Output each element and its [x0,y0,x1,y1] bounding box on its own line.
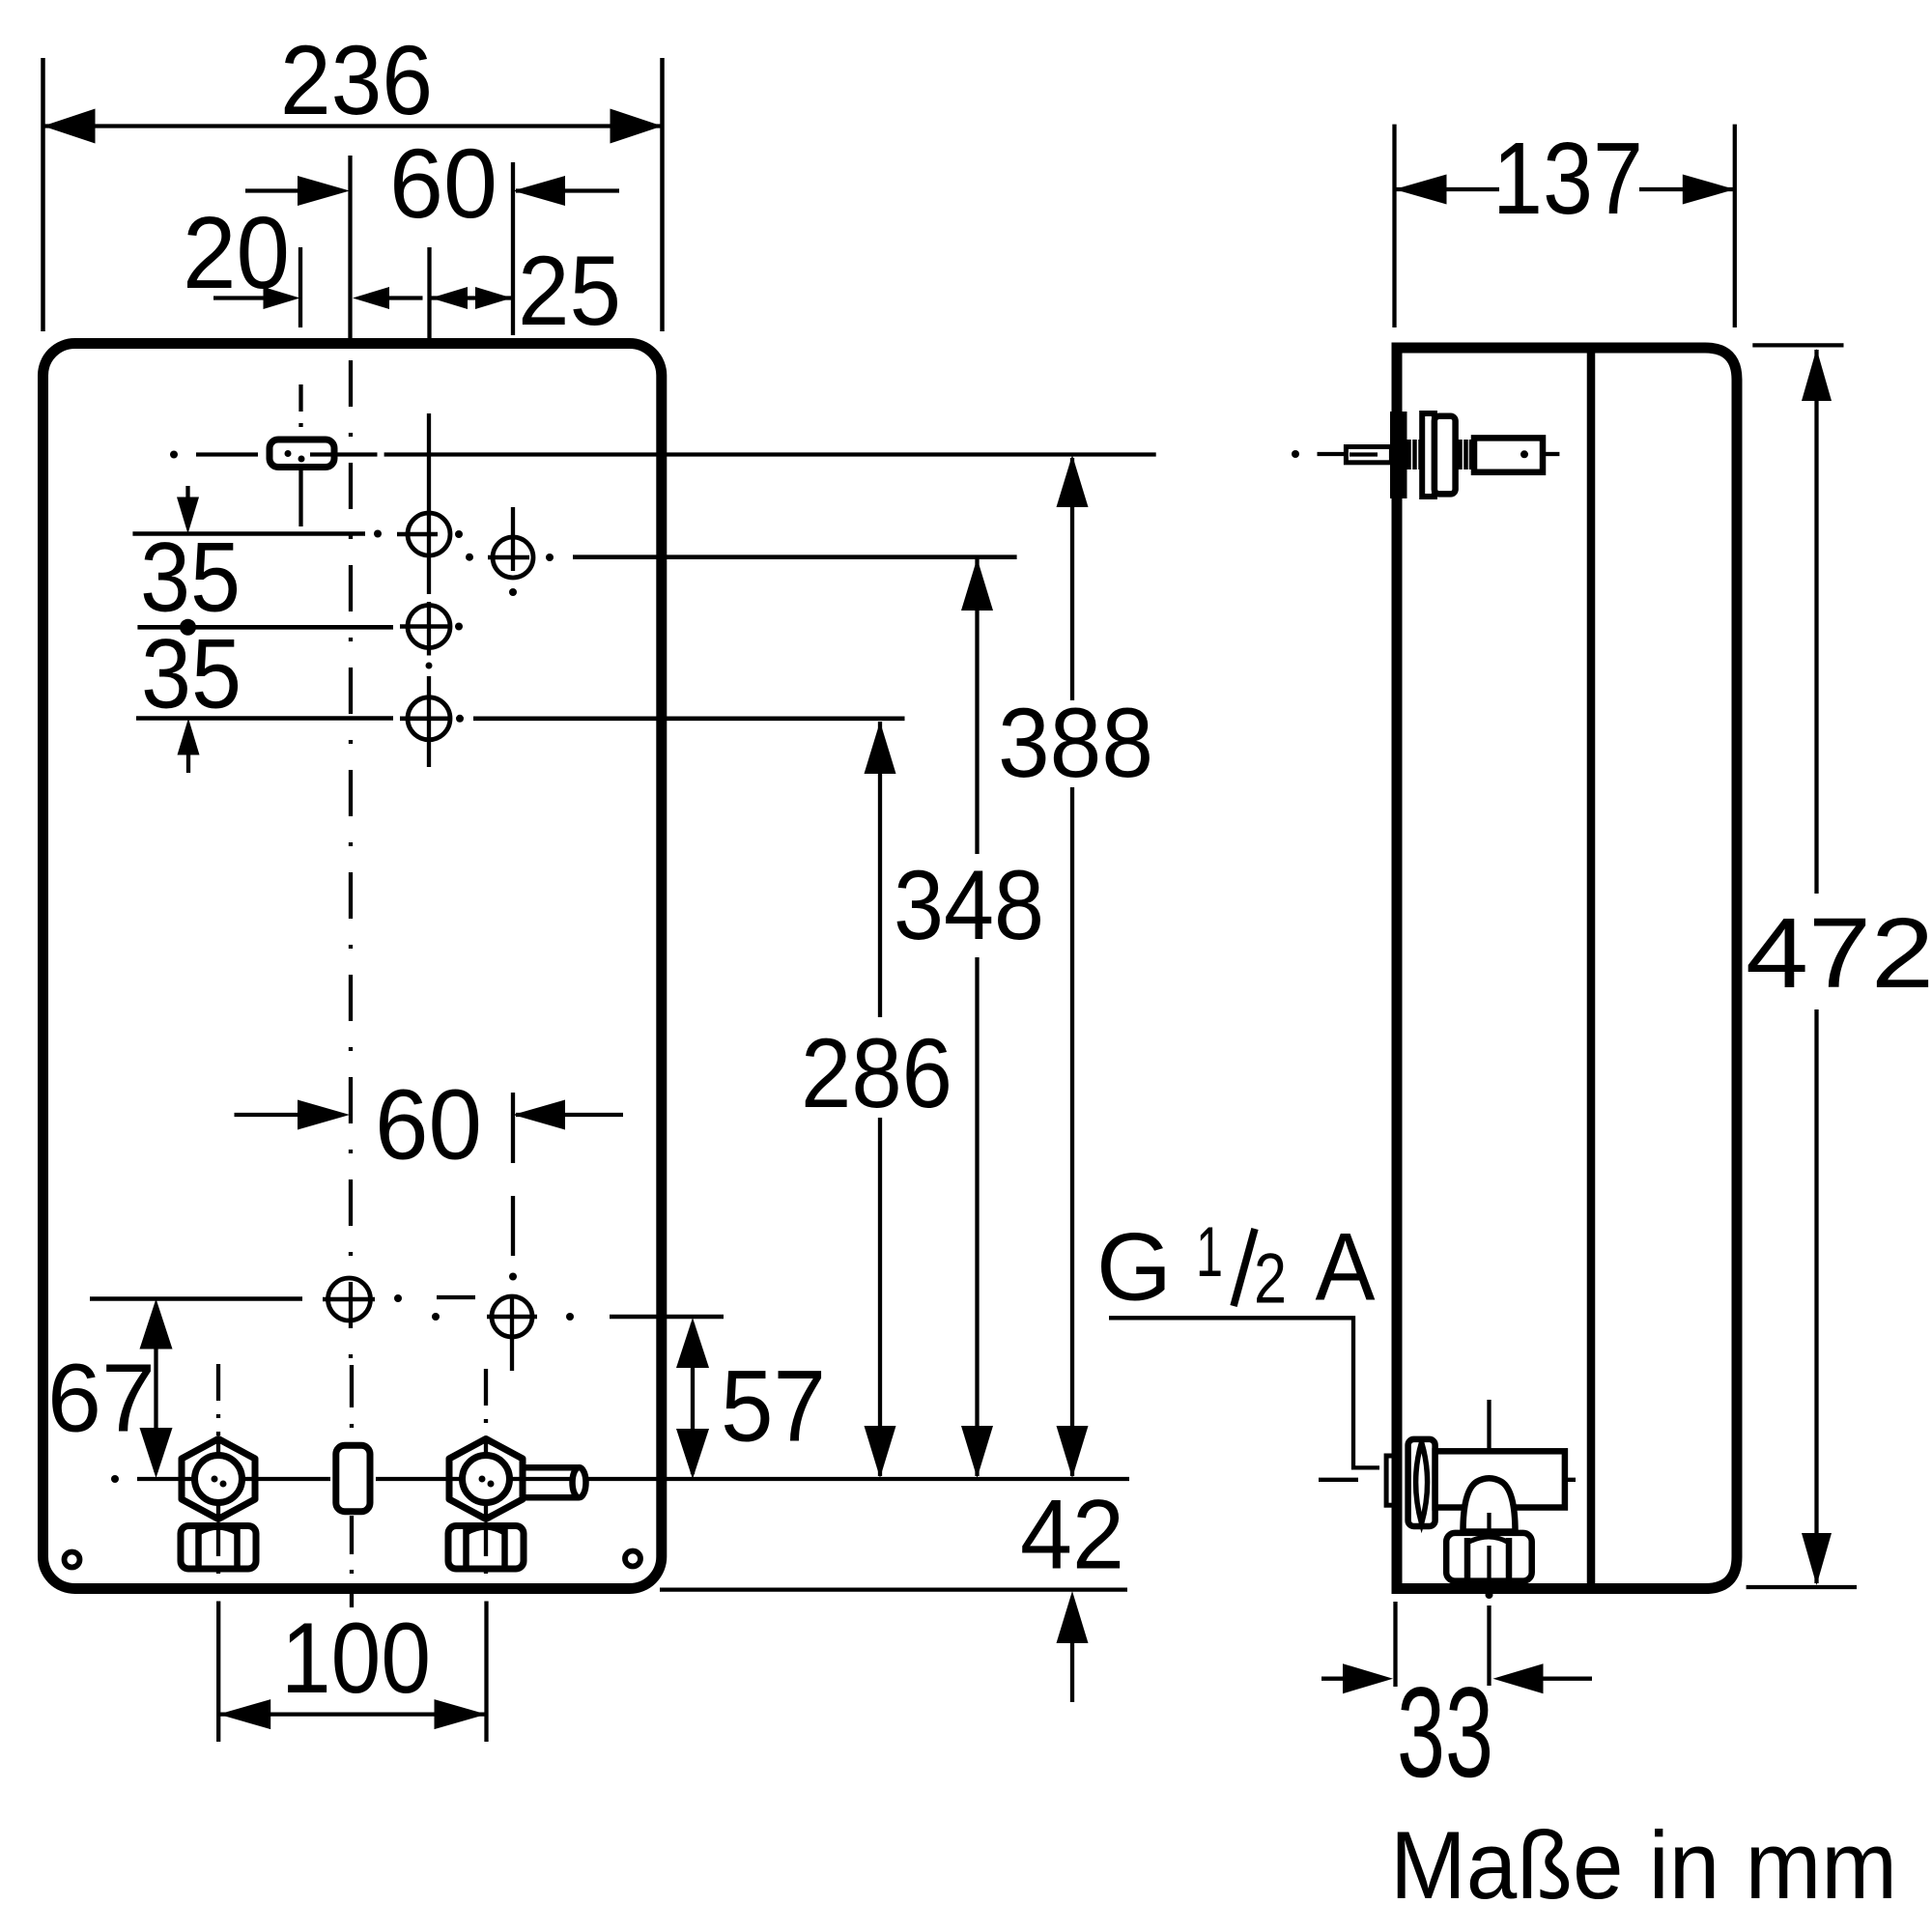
centerline through right nut [484,1523,488,1594]
dim 137 right arrow [1639,187,1735,191]
dim 472 dimension line [1814,350,1818,894]
front view body outline [43,344,662,1589]
dim 100 right extension line [484,1602,488,1743]
svg-text:236: 236 [280,25,433,135]
svg-text:60: 60 [389,128,497,239]
dim 388 bottom arrowhead [1057,1426,1089,1478]
left hex nut below [181,1526,256,1570]
dim 67 double arrow [154,1306,157,1472]
dim 33 left arrow [1321,1677,1345,1681]
svg-text:388: 388 [998,688,1153,798]
dim 472 bottom extension line [1747,1585,1857,1589]
dim 472 bottom arrowhead [1802,1533,1832,1585]
bottom fitting nut below [1446,1533,1532,1581]
svg-text:35: 35 [141,619,241,729]
side view body outline [1397,348,1737,1589]
dim 20 left arrow [213,296,267,299]
dim 236 left extension line [41,58,45,331]
dim 25 double arrow [431,296,512,299]
column x=531 lower segments [511,1093,515,1163]
svg-text:G: G [1096,1213,1172,1321]
dim 348 top arrowhead [961,558,993,611]
dim 236 dimension line [43,124,663,128]
svg-text:348: 348 [894,850,1044,960]
junction dot on 35 line [180,619,196,636]
dim 60 lower right arrow [516,1113,623,1117]
dim 60 top left arrow [245,188,299,192]
outlet pipe stub on right hex [525,1464,579,1471]
bottom fitting hex nut profile [1408,1439,1435,1526]
vertical crosshair through lower-right hole [510,1294,514,1371]
column centerline x=531 top extension [511,162,515,335]
mounting hole (444,744) [408,697,450,740]
main vertical centerline x=363 at plug [350,1365,354,1443]
wall anchor screw tip [1346,447,1391,463]
dim 33 left extension line [1393,1602,1397,1687]
reference line y=1363 for 57 dim [610,1315,724,1320]
dim 33 right extension dash-dot [1486,1591,1493,1599]
svg-text:472: 472 [1746,897,1932,1009]
dim 60 top right arrow [516,188,619,192]
dim 57 double arrow [691,1323,695,1474]
dim 236 right extension line [660,58,665,331]
svg-text:35: 35 [140,523,241,633]
svg-text:Maße in mm: Maße in mm [1390,1811,1897,1918]
reference line y=576.7 to 348 dimension [466,554,473,561]
mounting hole (444,553) [408,513,450,555]
svg-text:67: 67 [47,1344,156,1452]
svg-text:286: 286 [801,1018,952,1128]
bolt centerline vertical x=311.5 [298,384,302,437]
dim 236 left arrowhead [43,109,96,144]
dim 35 upper down arrow [185,486,189,524]
bolt horizontal centerline y=470.5 left dash-dot [170,451,178,459]
screw hole bottom-left [65,1552,80,1568]
reference line y=1345 for 67 dim [90,1296,302,1301]
dim 20 right arrow [387,296,423,299]
left water connection hex (226,1531) [182,1439,255,1520]
centerline through left nut [216,1523,220,1594]
dim 286 bottom arrowhead [865,1426,896,1478]
hex column centerline x=226 [216,1364,220,1435]
dim 286 top arrowhead [865,722,896,774]
G 1/2 A leader line [1109,1318,1379,1467]
dim 286 dimension line [878,722,882,1017]
reference line y=649.3 for 35 dim [137,625,393,630]
bolt centerline extension above body [298,247,302,327]
dim 60 lower left arrow [235,1113,305,1117]
dash-dot dot left of lower-right hole [432,1313,440,1321]
svg-text:20: 20 [183,196,290,310]
bottom fitting centerline vertical [1487,1400,1491,1455]
keyhole slot bolt at top [270,440,334,468]
dim 388 dimension line [1070,458,1074,700]
lower-left hole (362,1345) [328,1278,371,1321]
bottom fitting pipe [1435,1451,1565,1507]
dim 388 top arrowhead [1057,455,1089,507]
dim 35 lower up arrow [186,728,190,773]
bottom fitting centerline horizontal [1319,1478,1358,1482]
hole column centerline x=444 dash-dot [427,413,431,594]
screw hole bottom-right [625,1551,640,1567]
dim 33 right arrow [1543,1677,1592,1681]
dim 236 right arrowhead [611,109,663,144]
hex column centerline x=503 [484,1369,488,1439]
plug between connections [336,1445,370,1511]
svg-text:42: 42 [1020,1480,1124,1590]
wall anchor expansion sleeve [1474,438,1543,471]
svg-text:25: 25 [518,236,621,346]
dim 42 lower reference line [660,1587,1127,1591]
main vertical centerline x=363 dash-dot through body [349,360,353,1362]
svg-text:A: A [1316,1213,1376,1321]
dim 100 dimension line [218,1712,486,1716]
reference line y=470.5 from bolt to 388 dimension [310,452,378,456]
svg-text:137: 137 [1492,122,1643,236]
column x=531 through upper-right hole [511,507,515,571]
wall anchor thread ticks left [1406,440,1411,469]
dim 472 top extension line [1752,343,1843,347]
hole column centerline x=444 top extension [427,247,431,340]
bottom fitting elbow dome [1463,1478,1516,1531]
dim 137 left arrow [1395,187,1500,191]
svg-text:57: 57 [721,1350,826,1463]
svg-text:100: 100 [281,1603,431,1715]
dim 137 left extension line [1392,125,1396,327]
wall anchor washer [1422,413,1435,497]
lower-right hole (530,1363) [492,1296,532,1337]
dim 42 up arrow below [1057,1591,1089,1643]
dim 100 left arrowhead [218,1699,270,1729]
dim 100 right arrowhead [435,1699,487,1729]
main vertical centerline x=363 top extension [348,156,352,340]
right hex nut below [448,1526,524,1570]
mounting hole (531,577) [493,537,533,578]
wall anchor hex nut profile [1435,416,1456,495]
side view divider line [1587,353,1596,1584]
dim 348 dimension line [975,558,979,854]
svg-text:60: 60 [375,1069,482,1180]
wall anchor centerline dash-dot [1292,450,1299,458]
bottom fitting flange [1386,1456,1395,1505]
reference line y=743.5 for 35 and 286 dims [136,716,393,721]
dim 472 top arrowhead [1802,349,1832,401]
reference line y=552.5 for 35 dim [132,531,365,536]
wall anchor thread ticks right [1458,440,1463,469]
dim 100 left extension line [216,1602,220,1743]
wall anchor plate bar [1392,413,1406,497]
svg-text:33: 33 [1397,1662,1493,1804]
mounting hole (444,648) [408,606,450,648]
dim 137 right extension line [1733,125,1737,327]
svg-text:1: 1 [1196,1213,1223,1292]
right water connection hex (503,1531) [449,1439,523,1520]
dim 348 bottom arrowhead [961,1426,993,1478]
water connection centerline y=1531 [111,1475,119,1483]
svg-text:2: 2 [1254,1240,1287,1319]
